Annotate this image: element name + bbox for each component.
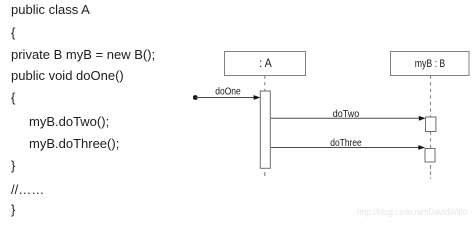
activation bar on B (doThree) (425, 149, 435, 163)
lifeline B segment 2 (between activations) (430, 132, 432, 149)
code line 10: close brace (11, 203, 15, 216)
doOne message line (195, 97, 254, 99)
svg-text:: A: : A (259, 58, 272, 70)
svg-text:doThree: doThree (330, 137, 362, 149)
code line 6: myB.doTwo() call (29, 115, 109, 128)
doOne start circle (193, 95, 198, 100)
doThree arrowhead (418, 145, 425, 150)
doTwo message line (271, 117, 420, 119)
code line 8: close brace (11, 159, 15, 172)
svg-text:http://blog.csdn.net/DavidWill: http://blog.csdn.net/DavidWillo (357, 207, 467, 218)
lifeline B segment 3 (below second activation) (430, 165, 432, 179)
object box :A (225, 52, 306, 76)
lifeline A segment 1 (box to activation) (264, 76, 266, 92)
doThree message line (271, 147, 419, 149)
code line 7: myB.doThree() call (29, 137, 119, 150)
svg-text:doOne: doOne (215, 85, 241, 97)
svg-text:doTwo: doTwo (333, 108, 360, 120)
activation bar on B (doTwo) (426, 117, 436, 132)
svg-text:myB : B: myB : B (415, 58, 446, 70)
activation bar on A (260, 91, 270, 168)
lifeline B segment 1 (box to first activation) (430, 76, 432, 118)
code line 2: open brace (11, 26, 15, 39)
lifeline A segment 2 (below activation) (264, 172, 266, 176)
doTwo arrowhead (419, 116, 426, 121)
code line 4: method doOne (11, 69, 124, 82)
object box myB:B (391, 52, 470, 76)
doOne arrowhead (254, 95, 261, 100)
code line 3: field declaration (11, 48, 155, 61)
code line 5: open brace (11, 91, 15, 104)
code line 1: public class A (11, 3, 90, 16)
code line 9: comment ellipsis (11, 183, 44, 196)
